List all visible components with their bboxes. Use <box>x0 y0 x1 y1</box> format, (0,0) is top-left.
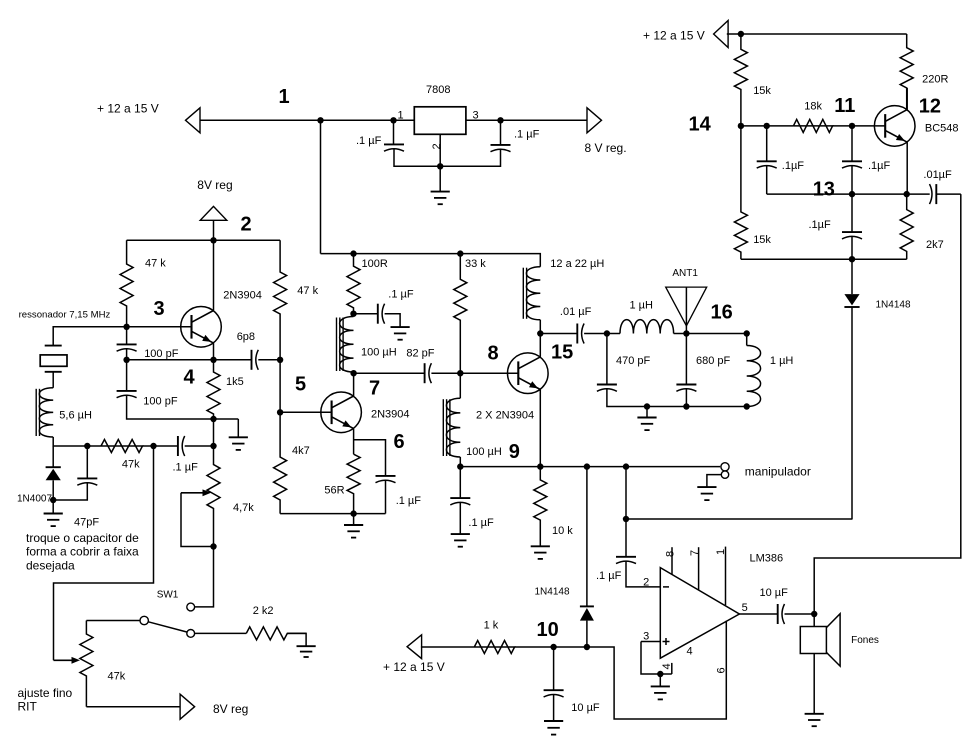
junction BFO base <box>849 123 855 129</box>
svg-text:+ 12 a 15 V: + 12 a 15 V <box>97 102 159 116</box>
label 18k <box>804 101 822 113</box>
capacitor 680pF <box>676 385 696 392</box>
wire 1uH shunt stem <box>746 334 748 346</box>
wire cap1 stem <box>393 120 395 144</box>
label 82 pF <box>406 348 434 360</box>
label 2N3904 buffer <box>371 408 410 420</box>
pin 1 label rotated <box>715 549 727 555</box>
junction osc collector load <box>350 311 356 317</box>
transistor PA 2x2N3904 <box>508 353 549 394</box>
label 2k7 <box>926 239 944 251</box>
svg-text:33 k: 33 k <box>465 258 486 270</box>
ground LM386 <box>651 674 670 699</box>
junction audio in tap <box>623 516 629 522</box>
wire 7808 pin2 <box>439 134 441 166</box>
wire coil to collector node <box>539 320 541 334</box>
svg-text:.1 µF: .1 µF <box>388 289 414 301</box>
junction node11 15k <box>738 123 744 129</box>
node 4 label <box>184 367 196 389</box>
diode 1N4148 BFO <box>844 294 859 307</box>
junction node9 diode <box>584 463 590 469</box>
pin 3 label <box>473 110 479 122</box>
ground fones <box>805 714 824 726</box>
label 15k upper <box>753 85 771 97</box>
svg-text:82 pF: 82 pF <box>406 348 434 360</box>
wire node4 rail <box>127 359 252 361</box>
ground varactor <box>44 514 63 527</box>
wire buffer emitter <box>353 429 355 455</box>
ground buffer <box>344 514 363 538</box>
wire 100pF1 to rail <box>126 348 128 360</box>
label 1 uH series <box>630 299 654 311</box>
junction antenna <box>683 330 689 336</box>
node 5 label <box>295 374 306 396</box>
svg-text:47pF: 47pF <box>74 517 99 529</box>
wire 10uF stem <box>553 647 555 690</box>
svg-text:16: 16 <box>711 302 733 324</box>
minus tick pin2 <box>663 586 669 588</box>
label 100 uH mixer <box>466 446 502 458</box>
junction node10 <box>550 644 556 650</box>
svg-text:desejada: desejada <box>26 558 75 572</box>
label +12 a 15 V (top) <box>97 102 159 116</box>
capacitor .1uF (audio in) <box>616 557 636 564</box>
note troque line2 <box>26 545 139 559</box>
svg-text:2: 2 <box>241 214 252 236</box>
wire to antenna node <box>674 333 747 335</box>
pin 6 label rotated <box>716 667 728 673</box>
ground decouple <box>391 327 410 340</box>
svg-text:18k: 18k <box>804 101 822 113</box>
svg-text:2 X 2N3904: 2 X 2N3904 <box>476 409 534 421</box>
svg-text:11: 11 <box>834 95 855 117</box>
label 100 pF lower <box>143 396 178 408</box>
wire .1uF c bottom <box>851 236 853 259</box>
svg-text:10 k: 10 k <box>552 525 573 537</box>
wiper arrow RIT <box>54 657 81 664</box>
plus tick pin3 <box>663 638 670 645</box>
inductor 100uH (mixer) <box>443 398 460 457</box>
junction 100R top <box>350 250 356 256</box>
label 4,7k <box>233 502 254 514</box>
label 2N3904 osc <box>223 289 262 301</box>
inductor 5,6uH <box>36 388 53 437</box>
capacitor .1uF (BFO c) <box>842 232 862 239</box>
svg-text:8 V reg.: 8 V reg. <box>585 141 627 155</box>
svg-text:100 µH: 100 µH <box>466 446 502 458</box>
node 8 label <box>488 343 499 365</box>
wire 680pF stem <box>685 334 687 385</box>
ground filter <box>637 407 656 431</box>
transistor 2N3904 oscillator <box>181 307 222 348</box>
8V reg arrow (RIT) <box>180 694 195 719</box>
resistor 2k7 <box>900 194 913 259</box>
label ressonador 7,15 MHz <box>19 310 111 321</box>
wire .1uF a bottom <box>766 165 768 194</box>
svg-text:10 µF: 10 µF <box>760 587 789 599</box>
svg-text:.1 µF: .1 µF <box>173 462 199 474</box>
pin 4 label rotated <box>661 663 673 669</box>
junction VXO tap <box>150 443 156 449</box>
power input arrow +12a15V (top) <box>186 108 201 133</box>
label 470 pF <box>616 355 651 367</box>
wire bypass to rail <box>385 480 387 514</box>
svg-text:1 µH: 1 µH <box>630 299 654 311</box>
resistor 47k (buffer base) <box>274 240 287 359</box>
wire SW1 to 2k2 <box>195 632 247 634</box>
diode 1N4148 audio <box>580 606 594 620</box>
node 13 label <box>813 179 835 201</box>
svg-text:.1 µF: .1 µF <box>596 570 622 582</box>
svg-text:10 µF: 10 µF <box>571 702 600 714</box>
label 8 V reg. <box>585 141 627 155</box>
node 10 label <box>537 619 559 641</box>
svg-text:3: 3 <box>643 630 649 642</box>
wire to 1N4148 <box>851 259 853 294</box>
resistor 1k <box>421 641 515 654</box>
wire 100pF2 stem <box>126 360 128 391</box>
label 2 k2 <box>253 605 274 617</box>
node 11 label <box>834 95 855 117</box>
label 33 k <box>465 258 486 270</box>
label .1uF output <box>514 129 540 141</box>
node 16 label <box>711 302 733 324</box>
junction node13 <box>849 191 855 197</box>
wire 100pF1 stem <box>126 327 128 345</box>
label SW1 <box>157 590 179 601</box>
wire .1uF b stem <box>851 126 853 161</box>
node 3 label <box>154 298 165 320</box>
label 1 k <box>484 619 499 631</box>
label +12a15V BFO <box>643 29 705 43</box>
wire 1k to node10 <box>515 621 727 719</box>
junction varactor gnd node <box>50 497 56 503</box>
resistor 1k5 <box>207 360 220 419</box>
wire 470pF bottom <box>607 388 747 406</box>
capacitor .1uF (osc decouple) <box>378 304 385 324</box>
svg-text:13: 13 <box>813 179 835 201</box>
junction filter in <box>604 330 610 336</box>
inductor 12a22uH <box>523 267 540 320</box>
capacitor .1uF (mixer gnd) <box>450 498 470 505</box>
svg-text:1: 1 <box>398 110 404 122</box>
wire 47k to cap <box>143 445 178 447</box>
junction pin4 gnd <box>657 671 663 677</box>
wire .1uF mixer stem <box>459 467 461 499</box>
node 2 label <box>241 214 252 236</box>
wire .1uF c stem <box>851 194 853 232</box>
label .1uF a <box>782 160 805 172</box>
svg-text:1: 1 <box>715 549 727 555</box>
junction 7808 gnd rail <box>437 163 443 169</box>
capacitor 10uF (audio out) <box>778 604 785 624</box>
junction node13 emitter <box>904 191 910 197</box>
switch SW1 contact upper <box>187 603 195 611</box>
wire .01uF to filter <box>584 333 620 335</box>
power arrow audio +12a15V <box>407 635 422 659</box>
node 15 label <box>551 342 573 364</box>
capacitor .1uF (7808 input) <box>384 144 404 151</box>
wire emitter to bypass cap <box>354 440 386 476</box>
resistor 56R <box>347 454 360 513</box>
label ANT1 <box>672 268 698 279</box>
wire fones top <box>813 614 815 627</box>
label 1N4148 audio <box>535 586 570 597</box>
wire .1uF b bottom <box>851 165 853 194</box>
op-amp LM386 body <box>660 568 739 659</box>
junction osc out node <box>350 370 356 376</box>
svg-text:220R: 220R <box>922 74 948 86</box>
svg-text:LM386: LM386 <box>750 553 784 565</box>
wire BC548 collector <box>906 88 908 110</box>
svg-text:5: 5 <box>295 374 306 396</box>
wire .01uF to injection <box>936 193 961 195</box>
wire manipulador gnd <box>707 475 721 488</box>
label 12 a 22 uH <box>550 258 604 270</box>
node 6 label <box>394 431 405 453</box>
wire 2k2 to gnd <box>287 633 306 646</box>
wire buffer base <box>280 411 332 413</box>
wire base to resonator <box>53 327 126 346</box>
capacitor .1uF (7808 output) <box>491 145 511 152</box>
wire to osc gnd <box>214 418 239 420</box>
pin 7 label rotated <box>689 550 701 556</box>
svg-text:47k: 47k <box>122 458 140 470</box>
junction 1uH shunt bottom <box>744 403 750 409</box>
label .1uF c <box>809 219 832 231</box>
svg-text:7808: 7808 <box>426 84 450 96</box>
capacitor 470pF <box>597 385 617 392</box>
junction node4 emitter <box>210 357 216 363</box>
junction buffer base <box>277 409 283 415</box>
wire power stem <box>213 220 215 240</box>
wire 6p8 to node5 <box>258 359 280 361</box>
connector manipulador <box>721 463 729 479</box>
wire 7808 pin3 out <box>466 119 587 121</box>
svg-text:ressonador 7,15 MHz: ressonador 7,15 MHz <box>19 310 111 321</box>
junction node11 cap <box>764 123 770 129</box>
wire PA collector <box>539 334 541 357</box>
wire cap to pin2 <box>626 561 660 587</box>
switch SW1 lever <box>148 622 187 632</box>
junction node1 <box>317 117 323 123</box>
label 2 X 2N3904 <box>476 409 534 421</box>
pin 3 label <box>643 630 649 642</box>
svg-text:1N4007: 1N4007 <box>17 494 52 505</box>
wire cap to node4 line <box>185 445 214 447</box>
svg-text:Fones: Fones <box>851 635 879 646</box>
wire crystal to coil <box>52 372 54 388</box>
capacitor 82pF <box>425 363 432 383</box>
potentiometer 47k RIT <box>80 621 93 707</box>
svg-text:4: 4 <box>661 663 673 669</box>
resistor 220R <box>900 34 913 110</box>
wire pin1 stem <box>725 547 727 606</box>
junction filter gnd <box>644 403 650 409</box>
label 47 k left <box>145 258 166 270</box>
wire node1 rail <box>200 119 394 121</box>
svg-text:+ 12 a 15 V: + 12 a 15 V <box>383 660 445 674</box>
ground oscillator <box>229 419 248 450</box>
wire 47pF top <box>86 446 88 478</box>
svg-text:47k: 47k <box>108 671 126 683</box>
svg-text:47 k: 47 k <box>145 258 166 270</box>
label .1uF bypass <box>396 495 422 507</box>
svg-text:troque o capacitor de: troque o capacitor de <box>26 531 139 545</box>
wire node11 rail right <box>833 125 886 127</box>
capacitor .1uF (buffer bypass) <box>376 476 396 483</box>
junction 1k5 bottom <box>210 416 216 422</box>
svg-text:RIT: RIT <box>18 700 38 714</box>
resistor 47k (osc base upper) <box>120 240 133 326</box>
label 1N4148 BFO <box>876 300 911 311</box>
wire node2 rail <box>127 239 281 241</box>
wiper arrow 4,7k <box>181 489 211 496</box>
svg-text:2: 2 <box>643 577 649 589</box>
resistor 100R <box>347 254 360 314</box>
wire down to varactor node <box>213 419 215 446</box>
resistor 4k7 <box>274 412 287 513</box>
pin 8 label rotated <box>665 551 677 557</box>
svg-text:6p8: 6p8 <box>237 331 255 343</box>
wire node5 down <box>279 360 281 413</box>
junction node9 left <box>457 463 463 469</box>
label 680 pF <box>696 355 731 367</box>
wire pin5 out <box>739 613 777 615</box>
label 10 k <box>552 525 573 537</box>
svg-text:100 pF: 100 pF <box>144 348 179 360</box>
junction pin3 <box>497 117 503 123</box>
capacitor .1uF (tuning line) <box>178 436 185 456</box>
svg-text:2N3904: 2N3904 <box>371 408 410 420</box>
junction osc base <box>123 324 129 330</box>
wire pot to SW1 <box>195 547 214 607</box>
wire cap2 stem <box>500 120 502 145</box>
wire pin8 stem <box>671 547 673 574</box>
svg-text:4k7: 4k7 <box>292 445 310 457</box>
antenna ANT1 symbol <box>666 287 707 333</box>
ground mixer cap <box>451 502 470 547</box>
wire to .01uF <box>540 333 577 335</box>
8V reg output arrow <box>587 108 602 133</box>
speaker Fones <box>800 614 840 666</box>
crystal resonator 7.15MHz <box>40 346 67 372</box>
wire pin3 to pin4 gnd <box>641 642 672 675</box>
wire pin3 <box>641 641 660 643</box>
svg-text:680 pF: 680 pF <box>696 355 731 367</box>
junction node9 10k <box>537 463 543 469</box>
capacitor 100pF upper <box>117 344 137 351</box>
wire 12V stage rail <box>321 254 541 267</box>
label Fones <box>851 635 879 646</box>
wire 680pF bottom <box>685 388 687 406</box>
capacitor .1uF (BFO a) <box>757 161 777 168</box>
svg-text:7: 7 <box>689 550 701 556</box>
resistor 2k2 <box>246 627 306 640</box>
wire .1uF a stem <box>766 126 768 161</box>
resistor 10k <box>534 467 547 547</box>
label .1uF input <box>356 135 382 147</box>
label 47k RIT <box>108 671 126 683</box>
switch SW1 common <box>140 616 148 624</box>
label 8V reg RIT <box>213 702 248 716</box>
power arrow 8V reg <box>200 206 227 220</box>
svg-text:14: 14 <box>689 114 712 136</box>
label .01 uF PA <box>560 306 592 318</box>
wire osc base <box>127 326 192 328</box>
svg-text:5: 5 <box>742 602 748 614</box>
label 100R <box>362 258 388 270</box>
wire pin4 stem <box>671 663 673 674</box>
junction 1uH shunt top <box>744 330 750 336</box>
wire BFO injection <box>814 194 961 614</box>
wire varactor anode <box>52 446 54 467</box>
node 14 label <box>689 114 712 136</box>
wire node9 rail <box>460 466 720 468</box>
wire coil to varactor node <box>53 437 101 446</box>
label 56R <box>324 485 344 497</box>
junction pot bottom <box>210 543 216 549</box>
label .01uF BFO <box>923 169 952 181</box>
wire cap1 to gnd rail <box>394 148 501 166</box>
capacitor .01uF (PA out) <box>577 324 584 344</box>
label 1N4007 <box>17 494 52 505</box>
junction 7808 pin1 <box>390 117 396 123</box>
wire mixer rail left <box>354 372 425 374</box>
wire 100pF2 to emitter gnd node <box>127 395 214 419</box>
node 7 label <box>369 378 380 400</box>
ground 7808 <box>431 166 450 204</box>
label 4 (gain pin) <box>687 646 693 658</box>
wire VXO line <box>54 446 154 660</box>
wire BFO top rail <box>727 33 907 35</box>
wire node1 down to 12V rail <box>320 120 322 253</box>
pin 2 label <box>643 577 649 589</box>
resistor 15k lower <box>734 126 747 259</box>
svg-text:4: 4 <box>687 646 693 658</box>
diode 1N4007 varactor <box>46 467 61 480</box>
wire 47pF bottom <box>53 482 87 500</box>
ground 2k2 <box>297 646 316 657</box>
label 1 uH shunt <box>770 355 794 367</box>
wire fones gnd <box>813 654 815 714</box>
label 47pF <box>74 517 99 529</box>
svg-text:2: 2 <box>431 143 443 149</box>
capacitor 6p8 <box>252 350 259 370</box>
wire 33k to coil <box>459 373 461 398</box>
resistor 33k <box>454 254 467 374</box>
svg-text:.1µF: .1µF <box>809 219 832 231</box>
resistor 18k <box>793 119 832 132</box>
svg-text:.01µF: .01µF <box>923 169 952 181</box>
svg-text:12: 12 <box>919 96 941 118</box>
label +12a15V audio <box>383 660 445 674</box>
junction PA collector <box>537 330 543 336</box>
svg-text:1N4148: 1N4148 <box>535 586 570 597</box>
junction varactor coupling <box>210 443 216 449</box>
svg-text:ANT1: ANT1 <box>672 268 698 279</box>
switch SW1 contact lower <box>187 630 195 638</box>
wire diode to manip line <box>851 307 853 519</box>
svg-text:8: 8 <box>665 551 677 557</box>
svg-text:.1 µF: .1 µF <box>396 495 422 507</box>
label .1uF decouple <box>388 289 414 301</box>
junction fones <box>811 611 817 617</box>
label BC548 <box>925 123 959 135</box>
svg-text:.1µF: .1µF <box>782 160 805 172</box>
svg-text:100R: 100R <box>362 258 388 270</box>
wire wiper link <box>181 493 214 547</box>
